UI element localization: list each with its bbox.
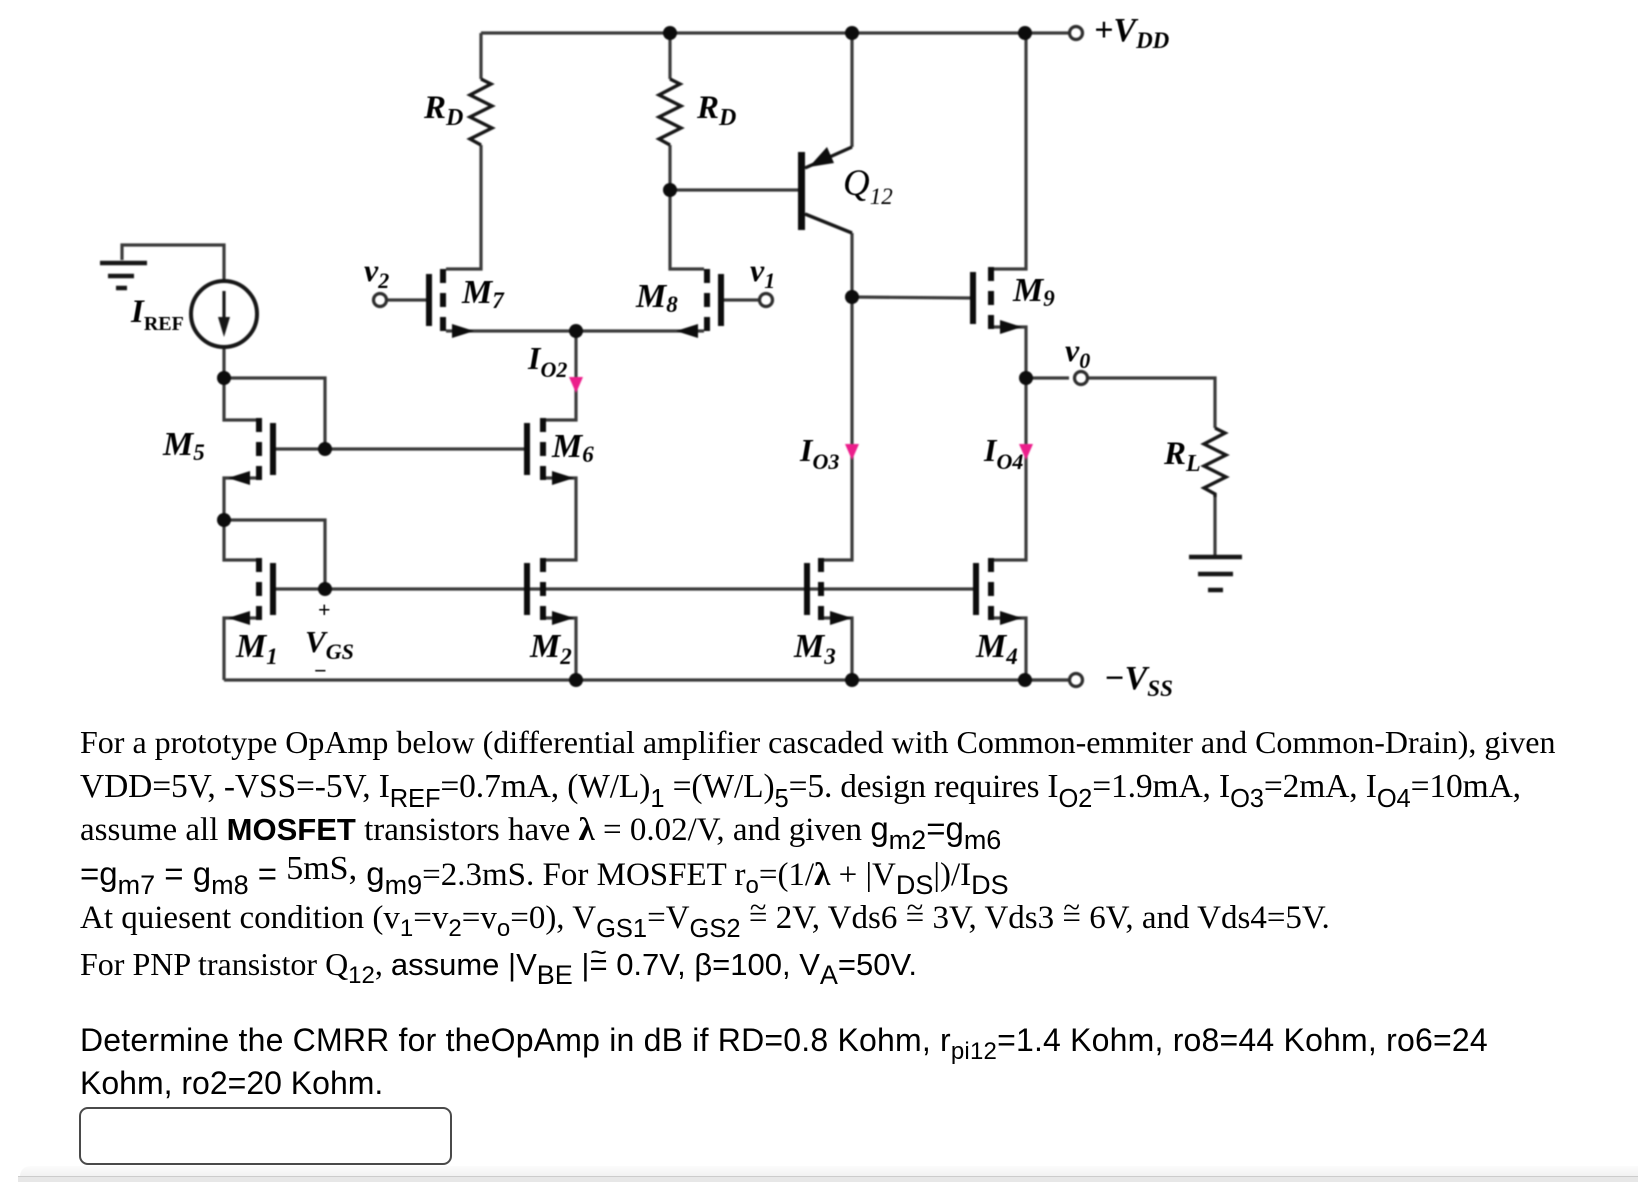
- transistor M6: [524, 418, 574, 485]
- ground (below RL): [1189, 557, 1242, 590]
- wire VSS bottom rail: [224, 678, 1068, 681]
- node VSS rail M4: [1018, 673, 1032, 687]
- label M9: [1013, 274, 1055, 308]
- label IO3: [800, 434, 839, 466]
- wire Q12 collector down to node C: [850, 233, 853, 297]
- wire gate bus M1-M2-M3-M4: [276, 587, 976, 590]
- transistor M5: [228, 418, 276, 485]
- label v1: [750, 254, 775, 286]
- wire M3 source to VSS rail: [824, 618, 852, 680]
- node M5 gate tie: [318, 442, 332, 456]
- node: junction dots: [217, 26, 1033, 687]
- label VGS minus: [314, 660, 327, 682]
- transistor M2: [524, 558, 574, 625]
- transistor M7: [426, 269, 474, 338]
- wire output terminal to RL: [1088, 378, 1215, 428]
- transistor M9: [970, 267, 1022, 334]
- label IO4: [984, 434, 1023, 466]
- problem statement text: [80, 726, 1555, 758]
- label +VDD: [1094, 14, 1169, 48]
- label IREF: [131, 296, 184, 329]
- label VGS plus: [318, 599, 331, 621]
- current arrow IO4: [1019, 444, 1033, 460]
- transistor M1: [228, 558, 276, 625]
- node VGS gate bus: [318, 582, 332, 596]
- label M6: [552, 430, 594, 464]
- label M4: [976, 630, 1018, 664]
- transistor M3: [804, 558, 852, 625]
- wire IREF bottom to node A: [222, 348, 225, 378]
- wire VSS rail to terminal: [1026, 678, 1068, 681]
- wire M9 drain to VDD rail: [994, 33, 1026, 269]
- node B: RD2 / Q12 base: [663, 183, 677, 197]
- wire M4 source to VSS rail: [994, 618, 1026, 680]
- terminal v2: [374, 294, 387, 307]
- resistor RD (left): [470, 79, 492, 145]
- ground (top left): [100, 263, 147, 288]
- node A: IREF / M5 drain: [217, 371, 231, 385]
- wire M7 source to common node E: [446, 329, 576, 332]
- label RL: [1164, 438, 1201, 471]
- label v2: [364, 254, 389, 286]
- wire Q12 emitter to VDD rail: [850, 33, 853, 147]
- label -VSS: [1104, 662, 1173, 696]
- wire node B down to M8 drain: [670, 190, 704, 269]
- current arrow IO2: [569, 377, 583, 393]
- wire M8 gate to v1 terminal: [724, 298, 759, 301]
- current source IREF: [191, 281, 257, 347]
- label M1: [236, 630, 278, 664]
- label M7: [462, 276, 504, 310]
- label M3: [794, 630, 836, 664]
- wire M5 source down to node D: [224, 478, 256, 520]
- terminal +VDD: [1070, 27, 1083, 40]
- wire M1 source to VSS rail: [224, 618, 256, 680]
- node E: M7-M8 common source: [569, 324, 583, 338]
- wire node C to M9 gate: [852, 297, 970, 298]
- wire M5 gate line: [276, 447, 325, 450]
- wire M7 gate to v2 terminal: [386, 298, 426, 301]
- wire M1 drain to node D: [224, 520, 256, 560]
- wire RD1 bottom lead to M7 drain: [446, 145, 481, 269]
- label RD right value: [697, 92, 736, 125]
- bottom scrollbar track: [20, 1166, 1638, 1182]
- answer input box: [79, 1107, 452, 1165]
- wire RD2 top lead: [668, 33, 671, 79]
- label Q12: [843, 165, 893, 202]
- node top rail Q12 emitter: [845, 26, 859, 40]
- wire M9 source down to node vo: [994, 327, 1026, 378]
- label M5: [163, 428, 205, 462]
- wire M8 source to common node E: [576, 329, 704, 332]
- wire M6 source to M2 drain: [546, 478, 576, 560]
- wire RL bottom lead to ground: [1213, 497, 1216, 556]
- schematic labels: [0, 0, 1, 1]
- wire node D to M1 gate tie: [224, 520, 325, 589]
- node top rail M9 drain: [1018, 26, 1032, 40]
- node vo: [1019, 371, 1033, 385]
- terminal v1: [760, 294, 773, 307]
- label VGS: [305, 626, 354, 657]
- label vo output: [1065, 334, 1090, 366]
- wire M5 drain to node A: [224, 378, 256, 420]
- transistor M4: [973, 558, 1022, 625]
- wire Q12 base from node B: [670, 188, 798, 191]
- label RD left value: [424, 92, 463, 125]
- node top rail above RD2: [663, 26, 677, 40]
- current arrow IO3: [845, 444, 859, 460]
- node VSS rail M3: [845, 673, 859, 687]
- wire M2 source to VSS rail: [546, 618, 576, 680]
- wire RD1 top lead: [479, 33, 482, 79]
- resistor RD (right): [659, 79, 681, 145]
- wire M5-M6 gate net: [325, 447, 524, 450]
- label IO2: [528, 342, 567, 374]
- label M8: [636, 280, 678, 314]
- resistor RL: [1204, 428, 1226, 497]
- wire VDD top rail: [481, 31, 1068, 34]
- transistor M8: [676, 269, 724, 338]
- node VSS rail M2: [569, 673, 583, 687]
- wire node vo down to M4 drain (IO4 branch): [994, 378, 1026, 560]
- wire node C down to M3 drain (IO3 branch): [824, 297, 852, 560]
- wire RD2 bottom lead to node B: [668, 145, 671, 190]
- node C: Q12 collector / M9 gate: [845, 290, 859, 304]
- terminal vo: [1075, 372, 1088, 385]
- terminal -VSS: [1070, 674, 1083, 687]
- label M2: [530, 630, 572, 664]
- wire ground to IREF top: [122, 245, 224, 281]
- transistor Q12: [798, 147, 852, 233]
- node D: M5 source / M1 drain: [217, 513, 231, 527]
- wire node vo to output terminal: [1026, 376, 1069, 379]
- wire node E down to M6 drain (IO2 branch): [546, 331, 576, 420]
- wire node A to M5 gate tie: [224, 378, 325, 449]
